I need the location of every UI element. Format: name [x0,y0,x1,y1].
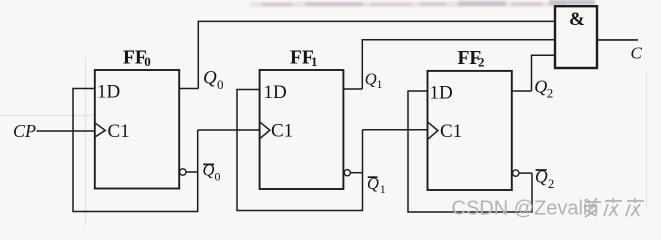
node Q2bar label [535,166,554,191]
svg-text:C: C [631,43,643,62]
svg-text:2: 2 [478,54,485,69]
wire FF1 feedback Q1bar to 1D [237,90,363,211]
flip-flop FF2 body [428,71,512,190]
wire CP to FF0 C1 [37,130,95,132]
svg-text:1: 1 [380,182,386,196]
svg-text:FF: FF [123,47,147,68]
svg-text:C1: C1 [440,121,462,142]
wire FF0 feedback Q0bar to 1D [73,89,198,212]
clock chevron C1 (FF0) [96,123,106,136]
svg-text:C1: C1 [108,121,130,142]
svg-text:0: 0 [217,77,224,92]
svg-text:1: 1 [311,54,318,69]
node Q1 label [365,70,383,92]
wire Q1 riser to rail 2 [361,40,363,89]
svg-text:Q: Q [203,161,215,180]
svg-text:CP: CP [13,121,36,141]
wire Q1bar stub [350,172,362,174]
wire Q2 output stub [512,90,532,92]
svg-text:CSDN @Zevalin: CSDN @Zevalin [452,198,599,220]
svg-text:&: & [569,9,585,30]
wire AND output [597,39,638,41]
inverted output bubble FF0 [180,169,186,175]
node Q1bar label [367,174,386,196]
node Q0bar label [203,161,221,184]
wire Q1bar to FF2 C1 [363,129,428,131]
wire Q0bar to FF1 C1 [198,129,260,131]
node Q0 label [203,68,224,92]
svg-text:0: 0 [215,170,221,184]
node Q2 label [534,77,553,101]
svg-text:C1: C1 [271,121,293,142]
svg-text:2: 2 [548,177,554,191]
wire Q0bar stub [186,171,198,173]
clock chevron C1 (FF2) [428,123,438,139]
svg-text:2: 2 [547,85,554,100]
svg-text:Q: Q [203,68,217,89]
faint notebook grid bleed [0,58,647,226]
label FF0 [123,47,151,69]
AND gate U1 body [555,6,597,68]
label FF2 [458,48,485,70]
svg-text:Q: Q [534,77,547,97]
svg-text:Q: Q [367,174,379,193]
svg-text:0: 0 [144,54,151,69]
svg-text:1D: 1D [430,83,453,104]
flip-flop FF1 body [260,70,344,189]
wire FF2 feedback Q2bar to 1D [408,91,532,212]
wire Q0 output stub [179,88,198,90]
inverted output bubble FF1 [344,170,350,176]
wire top rail Q0 to AND input 1 [198,20,556,22]
svg-text:Q: Q [365,70,377,89]
flip-flop FF0 body [95,70,179,189]
wire Q0 riser to top rail [197,21,199,88]
svg-text:1D: 1D [264,82,287,103]
inverted output bubble FF2 [513,170,519,176]
wire rail 2 Q1 to AND input 2 [362,39,556,41]
wire Q2bar stub [519,172,532,174]
svg-text:1: 1 [377,77,383,91]
wire Q2 riser to AND input 3 [532,55,556,91]
label FF1 [290,47,318,69]
clock chevron C1 (FF1) [260,122,270,138]
wire Q1 output stub [343,88,362,90]
svg-text:Q: Q [535,166,548,186]
svg-text:1D: 1D [97,82,120,103]
watermark CJK strokes [584,198,644,217]
